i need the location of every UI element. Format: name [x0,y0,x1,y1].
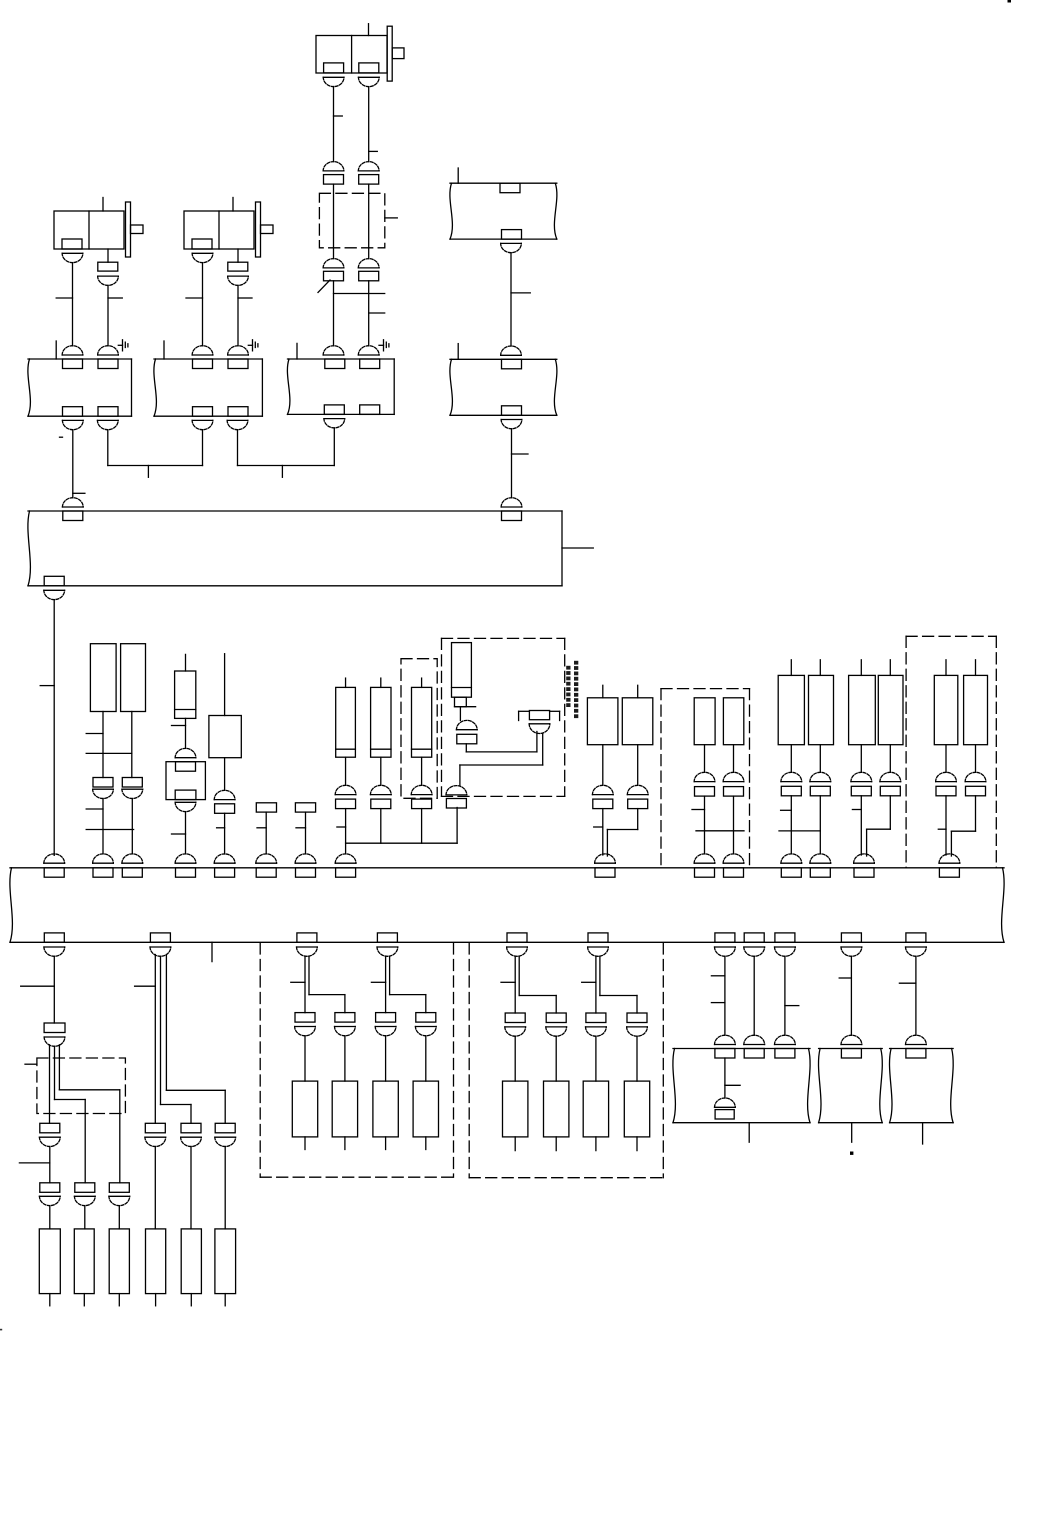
T3 tab left [324,63,344,73]
stub 305.0 [304,1137,306,1150]
wire T1 right leg upper [107,249,109,262]
earthing switch wire at T3 [379,344,384,346]
dashed enclosure cable box [319,193,384,248]
terminal 1c cup [109,1196,130,1205]
earthing switch wire at T1 [118,344,122,346]
block PT3 [215,804,235,814]
cable 598.0 right [600,956,637,1013]
wire K5 to K6 [510,253,512,346]
dome into cubicle C 3 [775,1035,796,1044]
bus B outgoing connector at 306.9 [297,933,318,956]
K5 bottom tab [502,230,522,240]
unit breaker dome [456,720,477,729]
stub 2a [155,1294,157,1306]
bus B outgoing connector at 387.4 [377,933,398,956]
tick on T3 left leg [334,115,343,117]
block M2 [724,787,744,797]
tick 946 [938,828,946,830]
transformer T2 [184,198,273,258]
load rect 305.0 [292,1081,317,1137]
dome into cubicle C 2 [744,1035,765,1044]
cable head 2c block [215,1123,235,1133]
wire F1 lower [185,812,187,854]
bus B connector at 949 [939,854,960,877]
truck box bottom tab [175,790,196,800]
bus B outgoing connector at 54 [44,933,65,956]
cubicle E box [889,1049,953,1123]
tie wire between T3 legs [334,293,385,295]
cable head cup 425.8 [415,1027,436,1036]
cable 598.0 left [595,956,597,1013]
wire 946.0 down [945,745,947,773]
cubicle C bottom stub [748,1123,750,1143]
fuse F1 [175,671,196,718]
bus A tab left [63,511,83,521]
wire 791.3 down [790,745,792,773]
K2 top tab right [228,359,248,369]
dome contact into K6 [501,346,522,355]
bus B connector at 733 [723,854,744,877]
block inside C [715,1110,734,1119]
wire T2 right leg [237,285,239,345]
dome at 890.3 [880,772,901,781]
dome into cubicle E [906,1035,927,1044]
K1 bottom tab left [63,407,83,417]
terminal 1b block [75,1183,95,1193]
wire col4 lower [456,808,458,844]
cubicle C tab 3 [775,1049,795,1059]
bus B connector at 103 [93,854,114,877]
wire 861 lower [860,796,862,855]
K1 top-left stub [55,341,57,359]
K3 top tab left [325,359,345,369]
tick feeder 517.0 [501,981,515,983]
cubicle C tab 1 [715,1049,735,1059]
dot mark [850,1152,853,1155]
bus B connector at 225 [214,854,235,877]
block at 890.3 [880,786,900,796]
wire M1 lower [704,796,706,854]
wire T2 left leg [202,263,204,346]
bus A dome left [62,498,83,507]
feeder rect at 890.3 [878,675,903,744]
dome contact into cubicle K2 left [192,346,213,355]
wire T3 left leg lower [333,281,335,346]
dome contact into cubicle K3 right [358,346,379,355]
socket tab [529,711,549,720]
load rect 556.2 [544,1081,569,1137]
dashed group box A [260,943,453,1177]
ground symbol T3 [384,340,389,351]
dome contact T3 right lower [358,259,379,268]
stub above 890.3 [889,660,891,676]
contact block T3 right lower [359,271,379,281]
K3 bottom cup [324,419,345,428]
dome contact col 3 [411,785,432,794]
T3 plug cup left [323,77,344,86]
wire 724 down [724,956,726,1035]
tick on K5-K6 wire [511,292,530,294]
K6 top-left stub [457,344,459,360]
K3 top tab right [360,359,380,369]
cable head 1a block [40,1123,60,1133]
tick col1 [337,826,346,828]
tick 861 [852,809,861,811]
stub 637.0 [636,1137,638,1151]
dome PT3 [214,790,235,799]
load rect 2b [181,1229,201,1294]
fuse link lower [455,697,467,707]
truck box [166,762,205,800]
bus B outgoing connector at 598.0 [588,933,609,956]
K2 bottom tab left [193,407,213,417]
K2 bottom cup left [192,420,213,429]
stub above W2 [637,685,639,698]
wire PT1 lower [102,799,104,854]
wire T3 right leg [368,87,370,162]
dashed unit enclosure [442,638,565,796]
dome M2 [723,772,744,781]
unit outgoing dome [446,786,467,795]
crossbar below fuse [455,706,476,708]
wire 946 lower [945,796,947,855]
contact block col 3 [412,799,432,809]
bus A tab right [502,511,522,521]
wire F1 down [185,718,187,748]
tick 724 upper [711,975,725,977]
cable 1a [49,1045,51,1124]
cable head cup 637.0 [627,1027,648,1036]
cable head block 515.2 [505,1013,525,1023]
wire 385.6 to load [385,1036,387,1081]
wire K1 left to bus A [72,430,74,498]
tick 915 [899,982,916,984]
wire F54 down [53,956,55,1023]
wire T3 right leg in box [368,184,370,259]
crossbar PT pair lower [86,829,133,831]
T2 aux connector block [228,262,248,271]
unit outgoing block [446,799,466,809]
bus B outgoing connector at 517.0 [507,933,528,956]
wire W1 down [602,745,604,786]
tick F54 [21,985,55,987]
wire 861.3 down [860,745,862,773]
cable head 2c cup [215,1137,236,1146]
cable 2a [154,955,156,1124]
wire 851 down [850,956,852,1035]
stub 425.8 [425,1137,427,1150]
wire T1 left leg [72,263,74,346]
wire fuse to breaker [459,707,461,721]
stub 2c [224,1294,226,1306]
load rect 344.9 [332,1081,357,1137]
wire 890 lower [867,796,891,856]
speck left edge [0,1329,2,1331]
wire M1 down [704,745,706,773]
cubicle C tab 2 [744,1049,764,1059]
cubicle K5 box [450,183,557,239]
wire 890.3 down [889,745,891,773]
dome contact col 2 [370,785,391,794]
feeder rect W2 [622,698,653,745]
cubicle K1 box [28,359,132,416]
feeder rect W1 [587,698,618,745]
K1 top tab right [98,359,118,369]
tick at dashed box right [385,217,398,219]
wire 556.2 to load [555,1036,557,1081]
dome at 975.5 [965,772,986,781]
vertical note text [566,661,578,718]
bus B outgoing connector at 754 [744,933,765,956]
block at 791.3 [781,786,801,796]
wire 975.5 down [975,745,977,773]
K2 bottom tab right [228,407,248,417]
wire T3 left leg [333,87,335,162]
K6 bottom cup [501,420,522,429]
breaker block PT1 [93,778,113,788]
dome contact col 1 [335,785,356,794]
stub 344.9 [344,1137,346,1150]
bus B outgoing connector at 724 [715,933,736,956]
wire PT1 down [102,712,104,778]
wire PT3 mid [224,758,226,791]
wire 2b lower [190,1147,192,1229]
bus B outgoing connector at 784 [775,933,796,956]
dome contact T3 right [358,162,379,171]
load rect 385.6 [373,1081,398,1137]
cable head block F54 [44,1023,65,1033]
disconnect blade slash [318,280,330,293]
cable 387.4 left [385,956,387,1012]
small dashed enclosure [401,659,437,799]
bus B connector at 605 [595,854,616,877]
bus duct A box [28,511,562,586]
dome above truck box [175,748,196,757]
K1 bottom cup left [62,420,83,429]
K1 top tab left [63,359,83,369]
crossbar PT pair [86,752,132,754]
dome at 861.3 [851,772,872,781]
ground symbol T1 [123,340,128,351]
wire PT3 upper [224,654,226,716]
socket bracket [519,711,560,720]
stub 556.2 [555,1137,557,1151]
T3 plug cup right [358,77,379,86]
tick stub2 [296,827,306,829]
cable 2c [166,955,225,1124]
bus B connector at 185 [175,854,196,877]
fuse column 3 [412,678,432,785]
wire M2 down [733,745,735,773]
cable head cup 344.9 [335,1027,356,1036]
load rect 1b [74,1229,94,1294]
cable head cup 595.9 [586,1027,607,1036]
stub 595.9 [595,1137,597,1151]
wire T3 right leg lower [368,281,370,346]
T2 aux plug cup [228,276,249,285]
wire 595.9 to load [595,1036,597,1081]
terminal 1b cup [74,1196,95,1205]
cable head block 344.9 [335,1013,355,1023]
bus B connector at 132 [122,854,143,877]
tick W1 [594,826,603,828]
tick on riser [40,685,54,687]
cable 517.0 left [514,956,516,1013]
tick on T2 left leg [186,297,203,299]
feeder rect at 820.3 [809,675,834,744]
load rect 595.9 [583,1081,608,1137]
terminal 1a block [40,1183,60,1193]
contact block T3 left lower [324,271,344,281]
cable head block 595.9 [586,1013,606,1023]
wire K2 right to K3 [238,428,335,466]
dome contact T3 left lower [323,259,344,268]
cubicle D tab [841,1049,861,1059]
dashed enclosure M [661,689,750,868]
terminal 1c block [109,1183,129,1193]
wire inside C [724,1058,726,1098]
contact block col 2 [371,799,391,809]
wire 637.0 to load [636,1036,638,1081]
tick 791 [781,809,792,811]
feeder rect at 861.3 [849,675,876,744]
K5 top-left stub [457,168,459,183]
cable head cup 385.6 [375,1027,396,1036]
tick M1 [692,809,705,811]
cable head cup F54 [44,1037,65,1046]
cable head 1a cup [39,1137,60,1146]
transformer T3 [316,24,404,81]
bus B connector at 346 [335,854,356,877]
feeder rect at 791.3 [778,675,804,744]
wire stub2 [305,812,307,854]
dome contact into cubicle K1 right [98,346,119,355]
stub block 1 [256,803,276,812]
truck box top tab [176,762,196,772]
tick on T3 right leg lower [369,312,385,314]
cable 306.9 left [304,956,306,1012]
load rect 637.0 [624,1081,649,1137]
stub above 975.5 [975,660,977,676]
stub 515.2 [514,1137,516,1151]
tick on T2 right leg [238,297,252,299]
bus A right stub [562,547,593,549]
cable head 2b block [181,1123,201,1133]
cable 2b [161,956,192,1123]
cable 387.4 right [390,956,426,1012]
truck box cup [175,802,196,811]
block at 946.0 [936,786,956,796]
load rect 515.2 [503,1081,528,1137]
bus B connector at 305 [295,854,316,877]
cable head 2a block [145,1123,165,1133]
dashed enclosure R [906,636,996,868]
tick below F1 [172,725,186,727]
fuse in unit [452,643,472,698]
tick 1a [19,1162,49,1164]
socket cup [529,724,550,734]
wire 820 lower [819,796,821,854]
tick on T3 right leg [369,150,378,152]
wire 2c lower [224,1147,226,1229]
wire 754 down [753,956,755,1035]
wire T2 right leg upper [237,249,239,262]
terminal 1a cup [39,1196,60,1205]
K3 bottom tab left [324,405,344,415]
wire PT3 lower [224,813,226,854]
wire 1a [49,1147,51,1183]
K1 bottom tab right [98,407,118,417]
block W1 [593,799,613,809]
feeder rect M2 [723,698,743,745]
cable 1b [55,1046,86,1183]
cubicle E tab [906,1049,926,1059]
cable head block 637.0 [627,1013,647,1023]
dome W2 [627,785,648,794]
wire col2 lower [380,809,382,844]
K2 top tab left [193,359,213,369]
K6 top tab [502,359,522,369]
cable head block 385.6 [376,1013,396,1023]
K3 top-left stub [296,343,298,359]
K5 bottom cup [501,243,522,252]
T2 LV plug connector [192,253,213,262]
dome contact into cubicle K3 left [323,346,344,355]
dashed cable trench box L [37,1058,126,1114]
tick PT1 lower [86,808,103,810]
bus A bottom cup [44,590,65,599]
tick F1 lower [172,833,186,835]
cubicle K3 box [287,359,394,414]
PT rect 2 [121,644,146,712]
feeder rect M1 [694,698,715,745]
tick on T1 right leg [108,297,122,299]
K1 bottom cup right [97,420,118,429]
stub block 2 [295,803,315,812]
transformer T1 [54,198,143,258]
T2 LV tab [192,239,212,249]
breaker block PT2 [122,778,142,788]
T1 aux plug cup [98,276,119,285]
small dash mark [60,436,63,438]
wire col3 lower [421,809,423,844]
cable head cup 305.0 [295,1027,316,1036]
wire 425.8 to load [425,1036,427,1081]
stub above F1 [185,654,187,671]
bus B connector at 864 [854,854,875,877]
cable head cup 556.2 [546,1027,567,1036]
dashed group box B [469,943,663,1178]
unit breaker block [457,734,477,744]
dome inside C [715,1098,736,1107]
PT rect 1 [90,644,116,712]
cable head block 305.0 [295,1013,315,1023]
dome at 946.0 [936,772,957,781]
tick 784 [785,1005,799,1007]
dome contact into cubicle K2 right [228,346,249,355]
T1 aux connector block [98,262,118,271]
cable head block 425.8 [416,1013,436,1023]
cable head 2b cup [181,1137,202,1146]
K2 bottom cup right [227,420,248,429]
cubicle K2 box [154,359,263,416]
cubicle E bottom stub [922,1123,924,1144]
stub 2b [190,1294,192,1306]
stub above 820.3 [819,660,821,676]
tick feeder 306.9 [291,981,305,983]
bus B connector at 266 [256,854,277,877]
T1 LV tab [62,239,82,249]
